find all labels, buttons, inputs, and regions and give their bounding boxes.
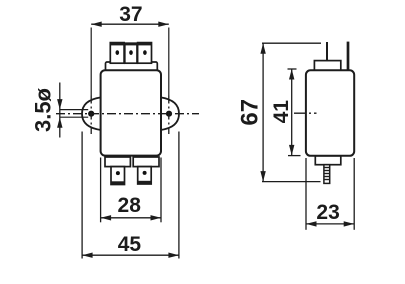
- dimension 37 line: [91, 23, 169, 25]
- top faston tab 1: [110, 43, 124, 64]
- svg-text:28: 28: [118, 194, 142, 217]
- dimension 45 extension lines: [81, 132, 83, 259]
- horizontal centerline through mounting holes: [56, 113, 199, 115]
- dimension 28 extension lines: [100, 158, 102, 223]
- side view bottom tab (ribbed): [324, 165, 330, 184]
- filter body (front view): [101, 70, 161, 155]
- side view top collar: [314, 61, 340, 71]
- top faston tab 3: [138, 43, 152, 64]
- svg-text:41: 41: [270, 100, 293, 124]
- dimension 23 line: [306, 223, 354, 225]
- svg-text:67: 67: [237, 99, 264, 126]
- mounting flange right ear: [161, 97, 179, 130]
- filter body (side view): [306, 70, 354, 156]
- svg-text:37: 37: [119, 3, 142, 26]
- dimension 23 extension lines: [305, 158, 307, 230]
- svg-text:23: 23: [316, 201, 339, 224]
- side view centerline tick: [294, 112, 317, 114]
- dimension 67 extension line top: [262, 42, 321, 44]
- dimension 45 line: [82, 254, 179, 256]
- dimension 28 line: [101, 217, 161, 219]
- bottom collar left (front view): [105, 157, 130, 167]
- dimension 41 line: [291, 69, 293, 155]
- side view top wire right: [347, 42, 350, 71]
- bottom collar right (front view): [133, 157, 159, 167]
- mounting hole right 3.5mm: [166, 111, 172, 117]
- dimension 3.5 hole leader lines: [60, 109, 88, 111]
- side view top wire left: [326, 42, 328, 61]
- top collar (front view): [106, 62, 158, 71]
- vertical centerline / extension left hole: [90, 28, 92, 96]
- svg-text:45: 45: [118, 233, 142, 256]
- bottom faston tab right: [138, 167, 152, 184]
- side view bottom collar: [315, 156, 341, 165]
- bottom faston tab left: [111, 167, 125, 185]
- dimension 67 extension line bottom: [262, 181, 321, 183]
- mounting flange left ear: [82, 97, 101, 130]
- dimension 41 extension line bottom: [288, 155, 301, 157]
- vertical centerline / extension right hole: [168, 28, 170, 96]
- svg-text:3.5ø: 3.5ø: [31, 87, 56, 132]
- mounting hole left 3.5mm: [88, 111, 94, 117]
- dimension 67 line: [262, 43, 264, 181]
- dimension 41 extension tick top: [288, 68, 297, 70]
- top faston tab 2: [125, 43, 137, 63]
- dimension 3.5 vertical line with outside arrows: [59, 83, 61, 138]
